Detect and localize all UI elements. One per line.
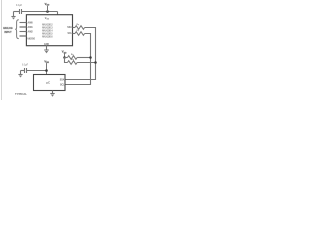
wire (lower pull-up lead) — [65, 58, 68, 63]
wire (analog input 3) — [20, 35, 27, 37]
wire (rail drop into IC top edge) — [57, 12, 59, 15]
svg-text:P: P — [78, 30, 79, 32]
svg-text:AIN3/GND: AIN3/GND — [27, 37, 35, 41]
node junction (uC VDD) — [45, 69, 48, 72]
wire (SCL to inner rail) — [65, 34, 91, 85]
wire (analog input 0) — [20, 22, 27, 24]
wire (upper pull-up lead) — [65, 57, 68, 59]
ground (top-left, bypass cap C1) — [11, 12, 15, 20]
resistor RP4 (pull-up to SDA rail) — [68, 61, 78, 65]
node brace (analog input group) — [15, 20, 19, 39]
resistor RP3 (pull-up to SCL rail) — [68, 56, 78, 60]
svg-text:DD: DD — [47, 19, 50, 21]
svg-text:0.1µF: 0.1µF — [16, 5, 23, 7]
op-amp U1 ADC box MAX11612 — [26, 15, 72, 46]
node VDD (junction dot on rail) — [46, 10, 49, 13]
wire (VDD rail, top) — [22, 11, 58, 13]
svg-text:0.1µF: 0.1µF — [22, 65, 29, 67]
capacitor C2 (uC bypass) — [21, 68, 27, 73]
wire (upper pull-up to rail) — [77, 57, 90, 59]
svg-text:P: P — [73, 60, 74, 62]
resistor RP2 (series on SCL line) — [75, 32, 85, 36]
svg-text:MAX11616: MAX11616 — [42, 34, 53, 38]
svg-text:AIN2: AIN2 — [28, 31, 34, 34]
wire (uC VDD feed) — [27, 70, 47, 72]
transistor U2 microcontroller box — [34, 75, 66, 91]
svg-text:TYPICAL: TYPICAL — [15, 93, 28, 96]
ground (U1 GND) — [44, 50, 49, 53]
wire (uC GND stub) — [52, 91, 54, 94]
svg-text:AIN1: AIN1 — [28, 26, 34, 29]
svg-text:INPUT: INPUT — [4, 30, 12, 34]
svg-text:SCL: SCL — [68, 32, 73, 35]
svg-text:SDA: SDA — [67, 26, 72, 29]
svg-text:P: P — [73, 55, 74, 57]
svg-text:AIN0: AIN0 — [28, 22, 34, 25]
wire (lower pull-up to rail) — [77, 62, 95, 64]
value label part numbers (inside U1) — [42, 22, 53, 38]
svg-text:SCL: SCL — [60, 84, 65, 87]
svg-text:ANALOG: ANALOG — [3, 26, 13, 30]
node junction (SDA rail) — [94, 61, 97, 64]
ground (uC GND) — [50, 94, 54, 97]
wire (SDA to right rail) — [65, 28, 96, 80]
wire (SDA pin stub) — [73, 27, 76, 29]
node pull-up junction — [63, 56, 66, 59]
wire (U1 GND stub) — [46, 46, 48, 50]
svg-text:SDA: SDA — [60, 79, 65, 82]
wire (analog input 2) — [20, 31, 27, 33]
wire (analog input 1) — [20, 26, 27, 28]
svg-text:P: P — [78, 24, 79, 26]
svg-text:µC: µC — [46, 80, 51, 84]
resistor RP1 (series on SDA line) — [75, 26, 85, 30]
node junction (SCL rail) — [89, 56, 92, 59]
page column rule (left faint border) — [1, 0, 3, 100]
capacitor C1 (VDD bypass, top-left) — [14, 9, 22, 14]
ground (lower bypass cap) — [18, 71, 22, 78]
wire (SCL pin stub) — [73, 33, 76, 35]
